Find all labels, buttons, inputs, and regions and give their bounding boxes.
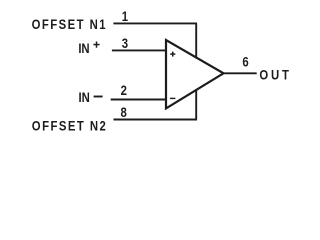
svg-text:2: 2 <box>121 82 127 99</box>
svg-text:IN: IN <box>79 89 90 106</box>
svg-text:OFFSET N1: OFFSET N1 <box>32 16 106 33</box>
op-amp inverting input marker - <box>170 97 176 99</box>
wire pin3 to noninverting input <box>112 49 167 51</box>
wire pin8 horizontal <box>114 119 198 121</box>
wire pin2 to inverting input <box>111 99 167 101</box>
op-amp noninverting input marker + <box>170 52 175 57</box>
wire pin8 vertical rise to triangle bottom edge <box>195 90 197 120</box>
svg-text:OUT: OUT <box>259 66 289 83</box>
wire pin1 horizontal <box>113 22 197 24</box>
svg-text:3: 3 <box>122 35 128 52</box>
svg-text:8: 8 <box>121 104 127 121</box>
svg-text:6: 6 <box>242 53 248 70</box>
svg-text:IN: IN <box>78 40 89 57</box>
svg-text:1: 1 <box>122 8 128 25</box>
op-amp U1 triangle <box>166 40 224 108</box>
wire pin6 output <box>224 72 257 74</box>
wire pin1 vertical drop to triangle top edge <box>195 23 197 58</box>
svg-text:OFFSET N2: OFFSET N2 <box>32 117 106 134</box>
